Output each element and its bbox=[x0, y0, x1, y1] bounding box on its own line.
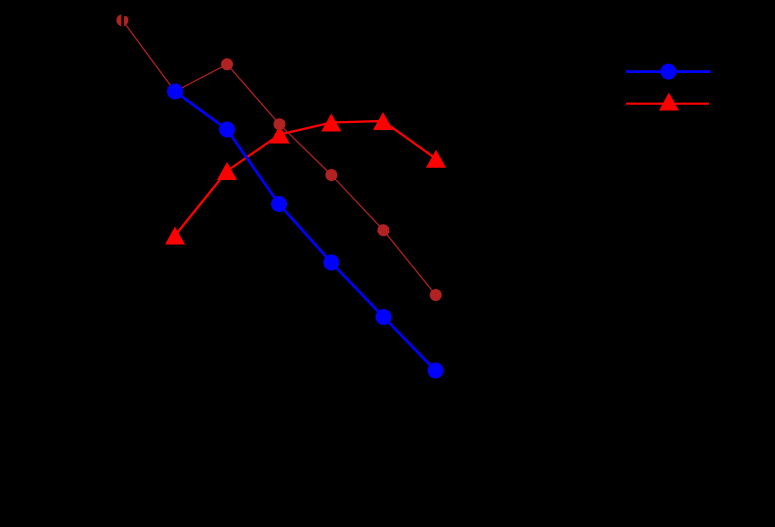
red triangle marker 1 bbox=[165, 227, 185, 245]
firebrick circle marker 2 (hidden under blue) bbox=[169, 86, 181, 98]
firebrick circle marker 6 bbox=[377, 224, 389, 236]
firebrick circle marker 1 bbox=[116, 14, 128, 26]
axes frame (black, invisible on black) bbox=[97, 33, 697, 463]
red triangle marker 6 bbox=[426, 150, 446, 168]
red triangle marker 5 bbox=[373, 112, 393, 130]
firebrick series line bbox=[122, 20, 435, 295]
red triangle marker 2 bbox=[217, 162, 237, 180]
blue series line bbox=[175, 92, 436, 371]
red triangle marker 4 bbox=[321, 114, 341, 132]
blue circle marker 6 bbox=[428, 363, 444, 379]
red series line bbox=[175, 121, 436, 236]
legend blue circle marker bbox=[660, 64, 676, 80]
black text fragment overlapping first firebrick marker bbox=[121, 13, 124, 27]
red triangle marker 3 bbox=[270, 126, 290, 144]
blue circle marker 5 bbox=[376, 309, 392, 325]
firebrick circle marker 3 bbox=[221, 58, 233, 70]
blue circle marker 2 bbox=[219, 122, 235, 138]
blue circle marker 4 bbox=[323, 255, 339, 271]
firebrick circle marker 5 bbox=[325, 169, 337, 181]
legend red triangle marker bbox=[659, 93, 679, 111]
firebrick circle marker 7 bbox=[430, 289, 442, 301]
blue circle marker 1 bbox=[167, 84, 183, 100]
firebrick circle marker 4 bbox=[274, 118, 286, 130]
legend blue entry line bbox=[626, 70, 711, 73]
blue circle marker 3 bbox=[271, 196, 287, 212]
legend red entry line bbox=[626, 103, 709, 105]
